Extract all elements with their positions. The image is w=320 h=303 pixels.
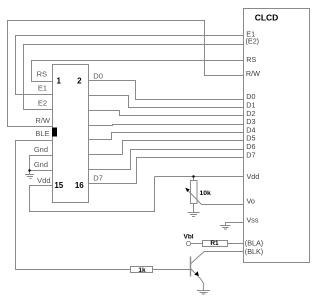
wire Gnd2 net [30, 171, 53, 175]
wire R1 to BLA [228, 243, 244, 245]
wire E2 net [24, 45, 244, 110]
svg-text:RS: RS [37, 69, 47, 78]
svg-text:(BLA): (BLA) [245, 238, 263, 247]
svg-text:R/W: R/W [246, 69, 260, 78]
svg-text:(BLK): (BLK) [245, 247, 263, 256]
resistor R1 body [203, 241, 228, 247]
svg-text:Vss: Vss [247, 216, 259, 225]
junction dot Gnd2 [28, 169, 30, 171]
svg-text:Vdd: Vdd [247, 172, 260, 181]
wire Vss to ground [226, 223, 244, 226]
junction dot Vdd/pot [192, 175, 194, 177]
svg-text:(E2): (E2) [246, 37, 260, 46]
wire Vdd rail to CLCD [155, 176, 244, 178]
svg-text:1: 1 [56, 76, 61, 85]
svg-text:CLCD: CLCD [255, 13, 279, 23]
wire pot bottom stem [193, 204, 195, 213]
emitter arrow head [194, 271, 199, 276]
svg-text:E2: E2 [38, 98, 47, 107]
terminal Vbl circle [186, 241, 190, 245]
wire 1k to transistor base [153, 269, 191, 271]
wire D3 net [89, 125, 244, 126]
svg-text:Gnd: Gnd [34, 145, 48, 154]
connector J1 body [53, 65, 89, 203]
svg-text:Gnd: Gnd [34, 160, 48, 169]
pot arrow head [185, 188, 189, 192]
ground at Gnd2 [25, 175, 34, 179]
svg-text:Vo: Vo [247, 197, 255, 206]
wire D6 net [89, 150, 244, 170]
potentiometer RV1 wiper arm [186, 188, 202, 205]
wire D7 net [89, 158, 244, 184]
wire D0 net [89, 81, 244, 100]
svg-text:Vbl: Vbl [184, 233, 194, 240]
wire R/W net [8, 21, 244, 127]
transistor Q1 emitter [191, 269, 204, 291]
wire Gnd1 net [30, 156, 53, 171]
wire E1 net [16, 36, 244, 95]
resistor 1k body [131, 267, 153, 273]
wire wiper to Vo [202, 204, 244, 206]
potentiometer RV1 body [191, 181, 198, 204]
ground under pot [188, 213, 200, 217]
svg-text:Vdd: Vdd [37, 176, 50, 185]
svg-text:E1: E1 [38, 84, 47, 93]
svg-text:BLE: BLE [35, 129, 49, 138]
wire Vdd net under IC [30, 177, 155, 212]
svg-text:D0: D0 [93, 72, 103, 81]
wire RS net [32, 61, 244, 82]
wire D5 net [89, 141, 244, 155]
wire BLK to collector [191, 252, 244, 264]
svg-text:1k: 1k [138, 267, 146, 274]
svg-text:2: 2 [77, 76, 82, 85]
transistor Q1 base bar [190, 257, 192, 277]
BLE pin marker square [52, 128, 57, 137]
ground at Vss [220, 226, 231, 230]
svg-text:R/W: R/W [35, 116, 51, 125]
svg-text:D7: D7 [93, 174, 103, 183]
ground under transistor [197, 291, 210, 295]
svg-text:R1: R1 [210, 240, 219, 247]
wire Vbl to R1 [191, 243, 203, 245]
wire D1 net [89, 96, 244, 108]
wire D2 net [89, 111, 244, 116]
svg-text:10k: 10k [200, 190, 212, 197]
svg-text:D7: D7 [246, 150, 255, 159]
wire D4 net [89, 133, 244, 140]
wire pot top stem [193, 177, 195, 181]
svg-text:15: 15 [54, 181, 63, 190]
svg-text:RS: RS [246, 55, 256, 64]
CLCD module body [244, 9, 310, 263]
svg-text:16: 16 [75, 181, 84, 190]
wire BLE net to 1k resistor [16, 141, 131, 270]
